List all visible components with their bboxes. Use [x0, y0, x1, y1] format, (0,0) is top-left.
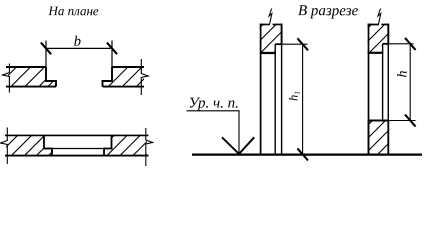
quarter jamb line — [382, 44, 384, 121]
lintel top edge — [368, 24, 379, 26]
wall left face — [368, 24, 370, 155]
left wall piece outline — [6, 67, 56, 87]
quarter jamb line — [274, 44, 276, 154]
svg-text:b: b — [74, 34, 81, 50]
floor line — [192, 154, 422, 156]
wall right face below quarter — [387, 44, 389, 121]
break line right — [146, 128, 153, 166]
tick bottom h1 — [297, 148, 308, 160]
svg-text:h: h — [396, 71, 411, 78]
sill edge line — [44, 148, 112, 150]
left wall hatching — [0, 52, 83, 92]
left wall hatching — [0, 124, 81, 164]
quarter step — [275, 43, 282, 45]
leader underline — [187, 110, 240, 112]
soffit of opening — [260, 52, 276, 54]
tick left — [41, 43, 51, 55]
svg-text:На плане: На плане — [47, 3, 98, 18]
label h (rotated) — [396, 71, 411, 78]
extension line at quarter soffit — [283, 43, 308, 45]
tick top h1 — [297, 38, 308, 50]
right wall hatching — [91, 55, 168, 90]
wall right face above quarter — [281, 24, 283, 45]
sill hatching — [336, 117, 415, 157]
tick right — [107, 43, 117, 55]
left jamb with quarter — [44, 135, 52, 155]
quarter step — [383, 43, 390, 45]
level arrow left stroke — [222, 137, 239, 154]
break line right — [141, 59, 148, 95]
lintel hatching — [344, 17, 405, 52]
leader vertical — [238, 111, 240, 154]
extension line at quarter soffit — [389, 43, 413, 45]
break line left — [1, 128, 8, 165]
svg-text:Ур. ч. п.: Ур. ч. п. — [188, 95, 238, 111]
right wall piece outline — [103, 67, 145, 87]
tick top h — [405, 38, 416, 50]
break zigzag top — [269, 9, 272, 26]
right wall hatching — [88, 122, 180, 162]
svg-text:В разрезе: В разрезе — [298, 3, 359, 19]
dimension line h1 — [302, 44, 304, 154]
label h1 (rotated) — [287, 91, 302, 101]
tick bottom h — [405, 115, 416, 127]
sill extension line — [389, 120, 415, 122]
wall right face below quarter — [281, 44, 283, 154]
break zigzag top — [378, 9, 381, 26]
break line left — [3, 64, 10, 93]
level arrow right stroke — [239, 137, 254, 154]
sill wall right edge — [387, 121, 389, 155]
wall left face — [260, 24, 262, 155]
dimension b line — [46, 47, 112, 49]
lintel top edge — [260, 24, 270, 26]
sill top edge — [368, 120, 390, 122]
extension line left — [45, 41, 47, 68]
sill wall left edge — [368, 121, 370, 155]
wall back edge — [5, 134, 149, 136]
wall right face above quarter — [387, 24, 389, 44]
lintel hatching — [233, 20, 307, 55]
right jamb with quarter — [104, 135, 112, 155]
wall front edge — [5, 155, 149, 157]
extension line right — [111, 41, 113, 68]
dimension line h — [409, 44, 411, 121]
soffit of opening — [368, 52, 384, 54]
